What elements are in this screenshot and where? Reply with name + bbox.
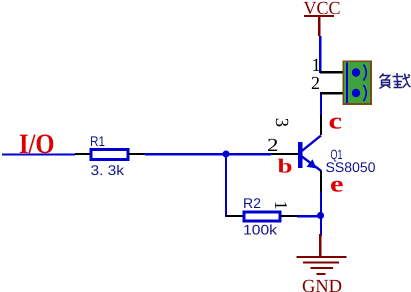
pin number 2 (base) [268, 139, 277, 151]
ground stem (dark red) [319, 234, 321, 256]
resistor R1 [91, 150, 128, 160]
transistor Q1 base bar [298, 142, 302, 168]
transistor Q1 collector stroke [301, 136, 322, 153]
wire: input to R1 (blue) [2, 153, 75, 155]
wire: connector pin 1 stub (black) [320, 71, 343, 73]
ground bar 2 [303, 261, 339, 263]
wire: emitter to ground (blue vertical) [320, 192, 322, 236]
wire: pin2 corner to collector (blue vertical) [320, 93, 322, 115]
pin number 1 of R2 (rotated) [275, 202, 287, 208]
wire: base pin 2 stub (black) [271, 153, 298, 155]
annotation e [331, 181, 343, 192]
wire: VCC to connector pin 1 (blue vertical) [319, 36, 321, 73]
net label I/O [20, 134, 53, 153]
connector inner left line [346, 63, 348, 104]
annotation b [278, 159, 292, 173]
power VCC text [304, 2, 340, 15]
connector pin 2 arc [364, 85, 367, 101]
wire: R2 left pin (black) [225, 215, 243, 217]
wire: junction A to base (blue) [226, 153, 271, 155]
label 负载 (load) [380, 73, 411, 89]
ground bar 4 [317, 273, 326, 275]
wire: R2 right pin (black) [280, 215, 297, 217]
connector J1 body [343, 61, 371, 104]
wire: R2 to junction B (blue) [297, 215, 320, 217]
ground GND text [303, 280, 342, 292]
wire: junction A down to R2 (blue) [225, 154, 227, 215]
pin number 1 (connector) [313, 59, 320, 71]
power VCC bar [304, 15, 334, 17]
connector pin 1 dot [352, 68, 360, 76]
value SS8050 [326, 162, 375, 172]
value 3.3k [91, 165, 124, 175]
wire: R1 right pin (black) [128, 153, 145, 155]
connector pin 2 dot [352, 89, 360, 97]
pin number 3 (collector, rotated) [276, 119, 288, 127]
designator Q1 [331, 150, 342, 162]
pin number 2 (connector) [312, 77, 319, 89]
wire: R1 left pin (black) [75, 153, 90, 155]
ground bar 1 [297, 256, 347, 258]
annotation c [330, 118, 342, 129]
junction A dot [223, 151, 230, 158]
wire: collector pin (black vertical) [320, 115, 322, 135]
wire: emitter pin (black vertical) [320, 171, 322, 193]
ground bar 3 [311, 267, 334, 269]
resistor R2 [244, 212, 280, 221]
designator R2 [244, 198, 260, 208]
value 100k [244, 224, 277, 234]
transistor Q1 emitter arrow [307, 159, 317, 168]
wire: R1 to junction A (blue) [145, 153, 226, 155]
wire: connector pin 2 stub (black) [320, 92, 343, 94]
junction B dot [317, 212, 324, 219]
designator R1 [91, 136, 104, 146]
power VCC stem [318, 17, 320, 36]
connector pin 1 arc [364, 65, 367, 81]
transistor Q1 emitter stroke [301, 156, 322, 171]
